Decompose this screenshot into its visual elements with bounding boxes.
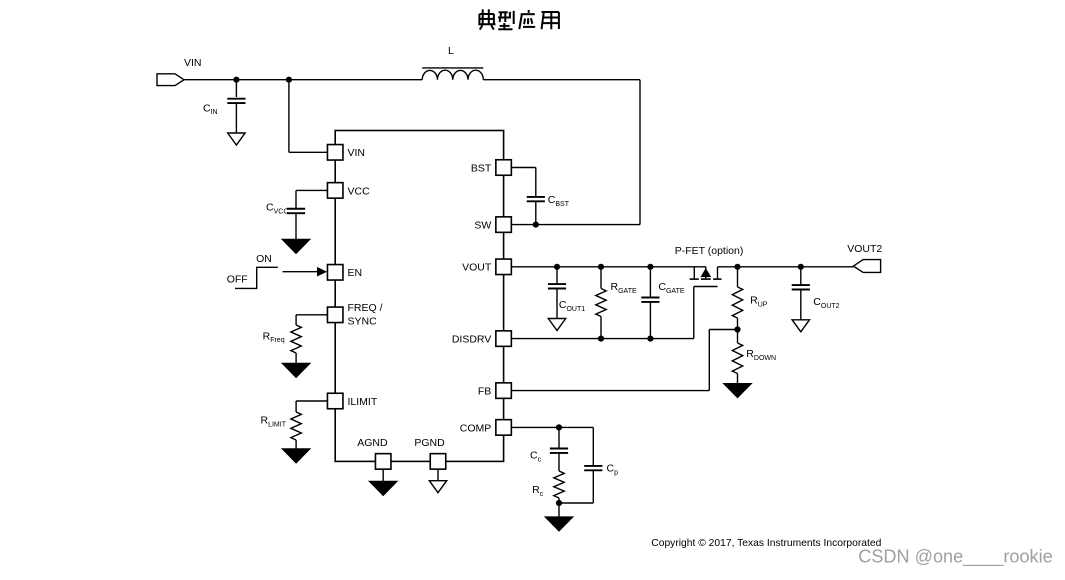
svg-text:SYNC: SYNC [348,316,378,328]
svg-text:VCC: VCC [348,185,371,197]
svg-text:Copyright © 2017, Texas Instru: Copyright © 2017, Texas Instruments Inco… [651,538,881,549]
svg-text:COMP: COMP [460,422,492,434]
svg-text:FB: FB [478,386,491,398]
svg-text:ILIMIT: ILIMIT [348,396,378,408]
svg-text:SW: SW [474,220,491,232]
svg-text:CSDN @one____rookie: CSDN @one____rookie [858,547,1052,568]
svg-text:OFF: OFF [227,273,248,285]
svg-text:PGND: PGND [414,437,445,449]
svg-text:VOUT2: VOUT2 [847,243,882,255]
svg-text:EN: EN [348,267,363,279]
svg-text:VIN: VIN [184,57,202,69]
svg-text:FREQ /: FREQ / [348,302,383,314]
svg-text:P-FET (option): P-FET (option) [675,245,744,257]
svg-text:L: L [448,45,454,57]
svg-text:DISDRV: DISDRV [452,334,491,346]
svg-text:AGND: AGND [357,437,388,449]
svg-text:ON: ON [256,253,272,265]
svg-text:BST: BST [471,162,492,174]
svg-text:VOUT: VOUT [462,262,492,274]
svg-text:VIN: VIN [348,147,366,159]
